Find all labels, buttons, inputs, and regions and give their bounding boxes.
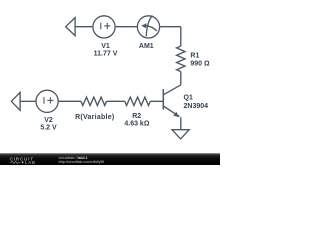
svg-text:Q1: Q1 <box>184 95 193 102</box>
svg-text:R1: R1 <box>190 53 199 60</box>
svg-text:11.77 V: 11.77 V <box>94 51 118 58</box>
svg-text:AM1: AM1 <box>139 43 154 50</box>
svg-text:5.2 V: 5.2 V <box>40 125 57 132</box>
svg-text:2N3904: 2N3904 <box>184 103 209 110</box>
svg-text:V2: V2 <box>44 117 53 124</box>
svg-text:R2: R2 <box>132 113 141 120</box>
svg-text:LAB: LAB <box>25 160 36 165</box>
svg-text:http://circuitlab.com/c/6dfy56: http://circuitlab.com/c/6dfy56 <box>59 160 105 164</box>
svg-text:R(Variable): R(Variable) <box>75 114 114 121</box>
svg-text:990 Ω: 990 Ω <box>190 60 210 67</box>
svg-text:V1: V1 <box>101 43 110 50</box>
svg-text:4.63 kΩ: 4.63 kΩ <box>124 121 149 128</box>
